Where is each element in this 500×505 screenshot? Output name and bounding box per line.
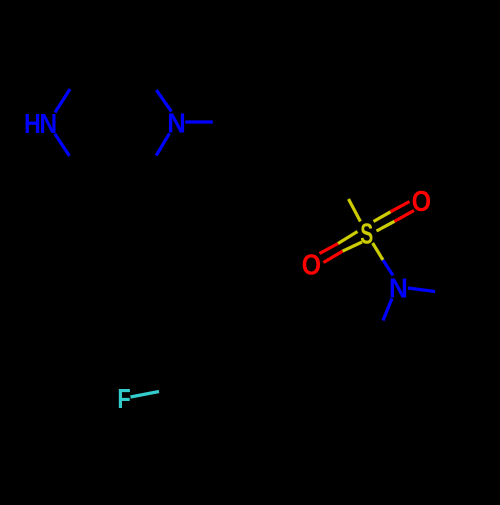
svg-text:O: O — [302, 249, 322, 281]
bond ring N to methyl carbon, horizontal (N half) — [185, 120, 213, 123]
S=O bottom-left double bond, upper line, S half — [338, 232, 358, 244]
S=O top-right double bond, lower line, S half — [377, 221, 395, 231]
svg-text:H: H — [24, 109, 41, 139]
svg-text:O: O — [412, 186, 432, 218]
bond amide N to right methyl (N half) — [408, 288, 435, 292]
svg-text:F: F — [117, 383, 130, 414]
atom label HN (piperazine NH) — [24, 107, 57, 139]
bond HN to top-left ring carbon (N half) — [55, 89, 70, 113]
bond S to amide N, N half — [383, 260, 393, 276]
S=O top-right double bond, upper line, O half — [391, 202, 410, 212]
bond S to amide N, S half — [373, 243, 383, 260]
S=O bottom-left double bond, lower line, O half — [324, 251, 343, 262]
S=O bottom-left double bond, lower line, S half — [343, 242, 363, 251]
bond ring N to top-right ring carbon (N half) — [156, 90, 171, 112]
S=O top-right double bond, lower line, O half — [395, 211, 415, 222]
bond amide N to lower-left methyl (N half) — [383, 299, 392, 321]
svg-text:S: S — [360, 219, 373, 251]
bond HN to bottom-left ring carbon (N half) — [55, 134, 70, 156]
S=O bottom-left double bond, upper line, O half — [320, 244, 339, 254]
bond S to methyl carbon up-left (S half) — [349, 199, 361, 222]
bond ring N to bottom-right ring carbon (N half) — [156, 133, 169, 155]
S=O top-right double bond, upper line, S half — [374, 212, 391, 222]
bond F to aryl carbon (F half) — [131, 392, 160, 398]
